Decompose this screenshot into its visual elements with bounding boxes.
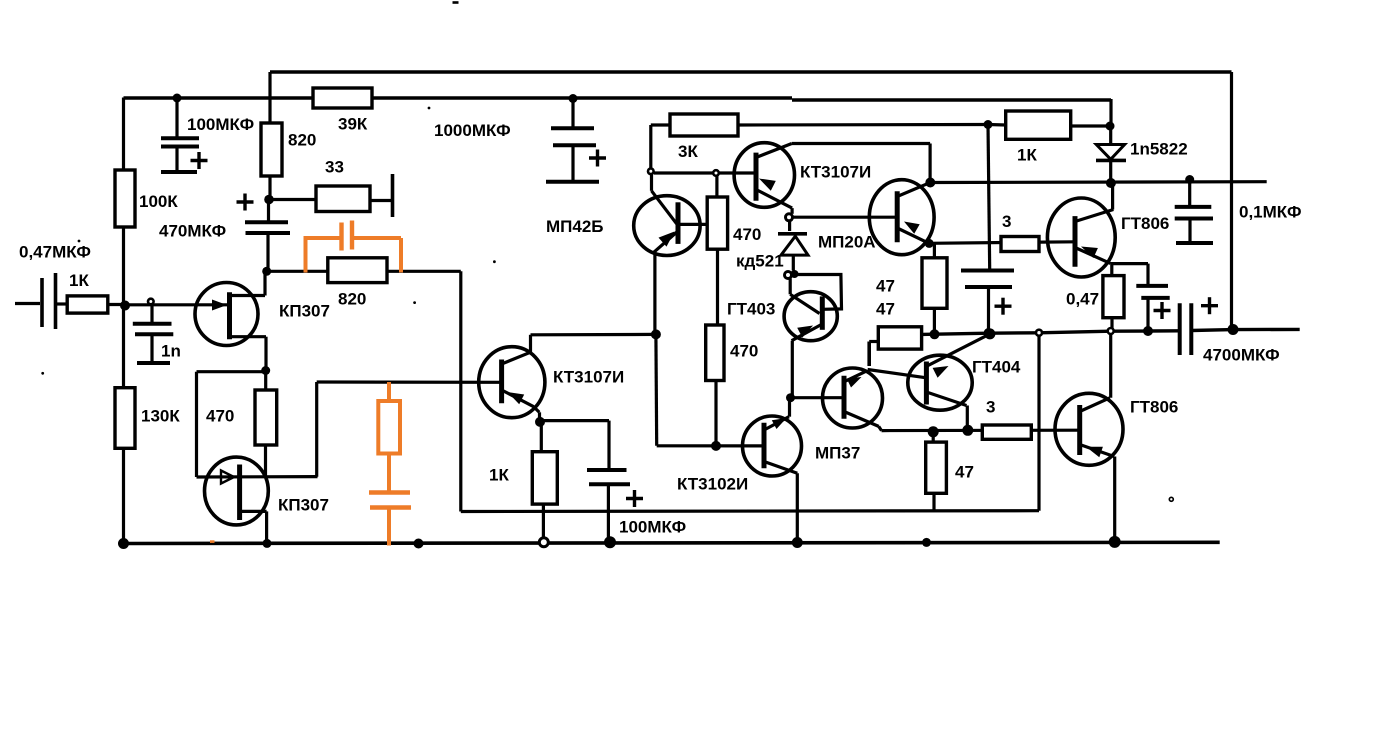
svg-text:ГТ806: ГТ806	[1130, 398, 1178, 417]
svg-text:МП42Б: МП42Б	[546, 217, 604, 236]
svg-text:МП20А: МП20А	[818, 233, 876, 252]
svg-text:4700МКФ: 4700МКФ	[1203, 346, 1280, 365]
svg-text:МП37: МП37	[815, 444, 860, 463]
svg-text:1n5822: 1n5822	[1130, 140, 1188, 159]
svg-text:ГТ404: ГТ404	[972, 358, 1021, 377]
svg-text:КТ3107И: КТ3107И	[553, 368, 624, 387]
svg-text:100К: 100К	[139, 192, 178, 211]
svg-text:3: 3	[1002, 212, 1011, 231]
svg-text:47: 47	[876, 300, 895, 319]
svg-text:100МКФ: 100МКФ	[187, 115, 254, 134]
svg-text:0,1МКФ: 0,1МКФ	[1239, 203, 1301, 222]
svg-text:33: 33	[325, 158, 344, 177]
svg-text:130К: 130К	[141, 407, 180, 426]
svg-text:470: 470	[733, 225, 761, 244]
svg-text:470: 470	[206, 407, 234, 426]
svg-text:47: 47	[955, 463, 974, 482]
svg-text:100МКФ: 100МКФ	[619, 518, 686, 537]
svg-text:1К: 1К	[489, 466, 509, 485]
svg-text:470: 470	[730, 342, 758, 361]
svg-text:470МКФ: 470МКФ	[159, 222, 226, 241]
svg-text:КТ3102И: КТ3102И	[677, 475, 748, 494]
svg-text:ГТ806: ГТ806	[1121, 214, 1169, 233]
svg-text:3: 3	[986, 398, 995, 417]
svg-text:3К: 3К	[678, 142, 698, 161]
svg-text:820: 820	[338, 290, 366, 309]
svg-text:820: 820	[288, 131, 316, 150]
svg-text:39К: 39К	[338, 115, 368, 134]
svg-text:КП307: КП307	[278, 496, 329, 515]
svg-text:1К: 1К	[1017, 146, 1037, 165]
svg-text:КП307: КП307	[279, 302, 330, 321]
svg-text:0,47: 0,47	[1066, 290, 1099, 309]
svg-text:ГТ403: ГТ403	[727, 300, 775, 319]
svg-text:0,47МКФ: 0,47МКФ	[19, 243, 91, 262]
svg-text:КТ3107И: КТ3107И	[800, 163, 871, 182]
svg-text:1000МКФ: 1000МКФ	[434, 121, 511, 140]
svg-text:1К: 1К	[69, 271, 89, 290]
svg-text:1n: 1n	[161, 342, 181, 361]
svg-text:кд521: кд521	[736, 252, 784, 271]
svg-text:47: 47	[876, 277, 895, 296]
